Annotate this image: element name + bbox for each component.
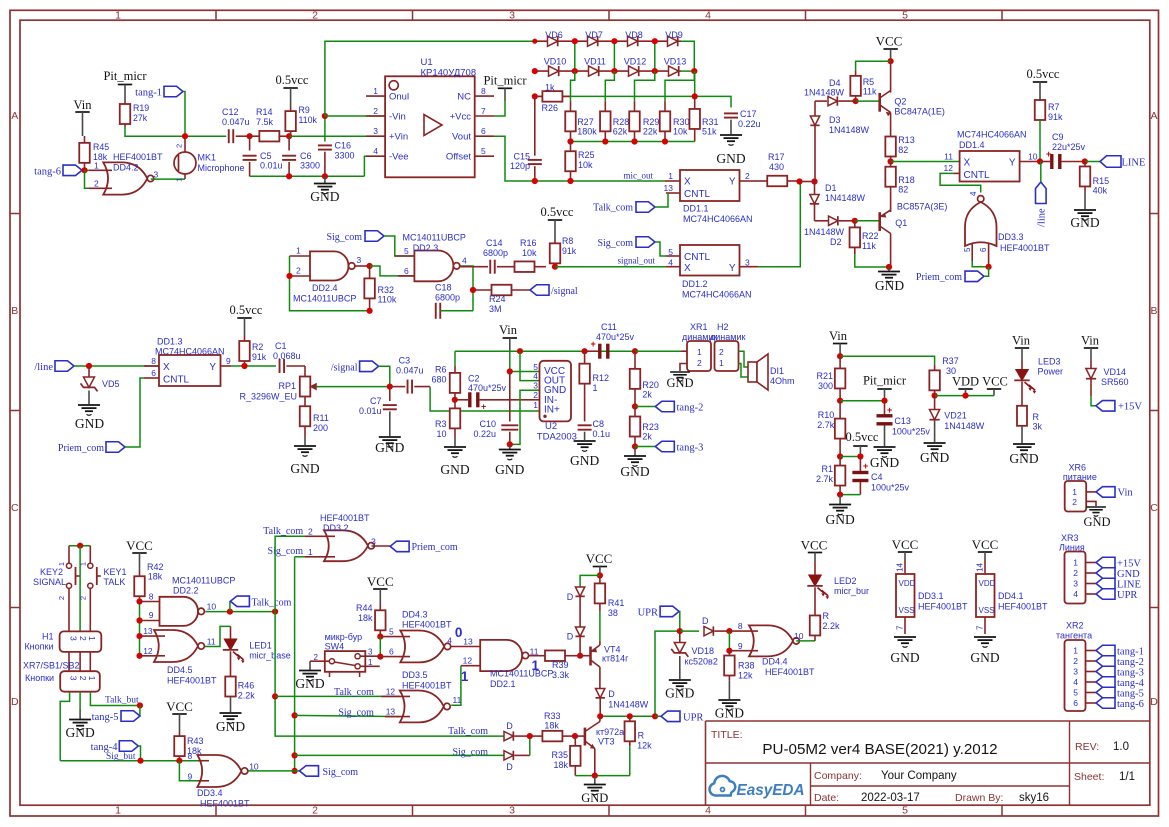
ground R46 xyxy=(216,713,245,734)
svg-text:3: 3 xyxy=(533,381,538,391)
svg-text:1: 1 xyxy=(57,562,66,566)
wire DD4.2 out to MK1 xyxy=(151,178,185,180)
svg-text:2.2k: 2.2k xyxy=(823,621,841,631)
wire tang-6 to gate xyxy=(82,169,89,171)
resistor R30 xyxy=(660,101,671,141)
label R44 xyxy=(356,603,373,623)
node Sig bus DD3.5 xyxy=(292,712,298,718)
svg-text:Sig_com: Sig_com xyxy=(326,232,362,243)
wire DD2.4 input loop xyxy=(290,256,370,311)
svg-text:12k: 12k xyxy=(637,741,652,751)
diode D (to DD4.4) xyxy=(680,626,730,635)
diode VD12 xyxy=(629,66,639,76)
svg-text:Линия: Линия xyxy=(1059,543,1085,553)
svg-text:2.7k: 2.7k xyxy=(817,420,835,430)
wire jog R29 xyxy=(635,71,655,101)
svg-text:Sig_com: Sig_com xyxy=(338,707,374,718)
svg-text:R6: R6 xyxy=(435,365,447,375)
net flag +15V (XR3) xyxy=(1096,557,1141,569)
svg-text:VD18: VD18 xyxy=(692,646,715,656)
svg-text:VDD: VDD xyxy=(979,579,996,588)
wire Sig_com to DD1.2 CNTL xyxy=(655,242,666,256)
node R31 top xyxy=(692,93,698,99)
svg-text:R41: R41 xyxy=(608,598,625,608)
net flag /line (vertical) xyxy=(1036,182,1048,227)
svg-text:4: 4 xyxy=(969,191,978,196)
svg-text:VD7: VD7 xyxy=(585,30,603,40)
svg-text:Sig_but: Sig_but xyxy=(106,752,136,762)
svg-text:7: 7 xyxy=(481,106,486,116)
svg-text:R15: R15 xyxy=(1093,176,1110,186)
svg-text:VD5: VD5 xyxy=(102,379,120,389)
svg-text:2.7k: 2.7k xyxy=(816,474,834,484)
node R1 bottom xyxy=(837,492,843,498)
svg-text:GND: GND xyxy=(970,650,999,665)
svg-text:SW4: SW4 xyxy=(325,642,345,652)
svg-text:11k: 11k xyxy=(863,87,877,97)
svg-text:DD1.1: DD1.1 xyxy=(683,204,709,214)
pin numbers DD1.1 xyxy=(664,171,750,193)
svg-text:R45: R45 xyxy=(93,142,109,152)
svg-text:3: 3 xyxy=(1073,579,1078,589)
label R37 xyxy=(942,356,959,376)
node pin1 DD4.2 xyxy=(81,167,87,173)
svg-text:18k: 18k xyxy=(544,721,559,731)
wire VD6 row xyxy=(535,41,695,71)
svg-text:110k: 110k xyxy=(299,115,318,125)
svg-text:2: 2 xyxy=(175,144,184,148)
net flag tang-1 xyxy=(135,86,183,98)
svg-text:R1: R1 xyxy=(821,464,833,474)
svg-text:R14: R14 xyxy=(256,107,273,117)
svg-text:R9: R9 xyxy=(299,105,310,115)
svg-text:+Vcc: +Vcc xyxy=(450,112,472,123)
node bus 13 xyxy=(136,633,142,639)
node UPR corner xyxy=(652,713,658,719)
node Talk_com bus top xyxy=(272,609,278,615)
svg-text:MC74HC4066AN: MC74HC4066AN xyxy=(155,346,225,356)
label H2 xyxy=(710,322,745,342)
label R29 xyxy=(643,117,660,137)
svg-text:D: D xyxy=(1150,696,1158,708)
node C12-C5 xyxy=(247,133,253,139)
svg-text:кт814г: кт814г xyxy=(602,654,629,664)
ground R1 xyxy=(825,495,854,527)
svg-text:Sig_com: Sig_com xyxy=(452,747,488,758)
svg-text:1: 1 xyxy=(373,86,378,96)
svg-text:R30: R30 xyxy=(673,117,690,127)
connector XR7/SB1/SB2 xyxy=(60,671,100,692)
gate DD4.4 (NOR) xyxy=(729,625,815,656)
svg-text:DD1.3: DD1.3 xyxy=(157,337,183,347)
node DD2.4 pin2 xyxy=(286,273,292,279)
wire R44 to pin6 xyxy=(379,637,381,657)
svg-text:4: 4 xyxy=(447,636,452,646)
svg-text:GND: GND xyxy=(716,151,745,166)
node tang-2 tap xyxy=(632,403,638,409)
svg-text:Company:: Company: xyxy=(814,770,862,782)
svg-text:VD6: VD6 xyxy=(545,30,563,40)
resistor R16 xyxy=(503,261,546,272)
svg-text:2: 2 xyxy=(1073,568,1078,578)
net flag Sig_com (DD3.4) xyxy=(295,766,359,778)
resistor R20 xyxy=(630,351,641,406)
node DD3.3 in xyxy=(986,264,992,270)
power flag VCC (VT4) xyxy=(593,567,607,576)
node C13 top xyxy=(881,398,887,404)
svg-text:GND: GND xyxy=(1009,451,1038,466)
svg-text:91k: 91k xyxy=(252,352,267,362)
svg-text:C17: C17 xyxy=(740,109,757,119)
resistor R3 xyxy=(450,400,461,446)
svg-text:1: 1 xyxy=(94,160,99,170)
svg-text:DD1.2: DD1.2 xyxy=(682,279,708,289)
svg-text:Vin: Vin xyxy=(1012,334,1031,348)
svg-text:UPR: UPR xyxy=(1117,590,1137,601)
wire R26 row xyxy=(535,95,710,97)
svg-text:тангента: тангента xyxy=(1056,631,1092,641)
svg-text:4: 4 xyxy=(705,9,711,21)
svg-text:Priem_com: Priem_com xyxy=(412,542,458,553)
svg-text:38: 38 xyxy=(608,608,618,618)
svg-text:R31: R31 xyxy=(702,117,719,127)
svg-text:HEF4001BT: HEF4001BT xyxy=(320,513,370,523)
ground C13 xyxy=(870,447,899,470)
svg-text:HEF4001BT: HEF4001BT xyxy=(167,676,217,686)
wire VD10 row xyxy=(535,70,695,72)
svg-text:2: 2 xyxy=(308,526,313,536)
svg-text:9: 9 xyxy=(226,356,231,366)
svg-text:GND: GND xyxy=(75,416,104,431)
svg-text:0.01u: 0.01u xyxy=(359,406,382,416)
svg-text:2022-03-17: 2022-03-17 xyxy=(861,792,920,804)
analog switch DD1.3 xyxy=(144,355,231,386)
diode VD8 xyxy=(628,36,638,46)
svg-text:R12: R12 xyxy=(593,373,610,383)
wire Sig_com to DD3.5 pin13 xyxy=(295,715,400,716)
node C15 bottom xyxy=(532,178,538,184)
wire to DD1.4 X xyxy=(891,161,960,163)
push button KEY2 xyxy=(57,546,80,632)
svg-text:120p: 120p xyxy=(510,161,530,171)
svg-text:tang-4: tang-4 xyxy=(91,742,119,753)
power flag 0.5vcc (R7) xyxy=(1033,82,1047,100)
label DD3.1 xyxy=(918,591,968,612)
node C5 gnd xyxy=(286,173,292,179)
node /signal-C3-C7 xyxy=(387,384,393,390)
svg-text:R44: R44 xyxy=(356,603,373,613)
svg-text:DD2.2: DD2.2 xyxy=(173,586,199,596)
svg-text:CNTL: CNTL xyxy=(163,375,190,386)
wire DD1.4 CNTL to DD3.3 xyxy=(940,173,981,192)
svg-text:R19: R19 xyxy=(133,103,149,113)
label R35 xyxy=(551,750,568,770)
svg-text:LED1: LED1 xyxy=(249,641,272,651)
svg-text:HEF4001BT: HEF4001BT xyxy=(200,799,250,809)
wire DD4.3 out to DD2.1 xyxy=(451,646,480,648)
resistor R2 xyxy=(239,336,250,366)
svg-text:VSS: VSS xyxy=(899,606,915,615)
svg-text:200: 200 xyxy=(313,423,328,433)
svg-text:C13: C13 xyxy=(894,416,911,426)
svg-text:DD4.5: DD4.5 xyxy=(167,665,193,675)
svg-text:DD3.4: DD3.4 xyxy=(197,788,223,798)
ground R11 xyxy=(290,446,319,476)
svg-text:VCC: VCC xyxy=(982,375,1008,389)
svg-text:HEF4001BT: HEF4001BT xyxy=(998,602,1048,612)
diode D (Sig VT3) xyxy=(504,751,530,760)
diode VD21 xyxy=(930,396,940,442)
ground R15 xyxy=(1070,210,1099,230)
label R18 xyxy=(898,175,915,195)
svg-text:Y: Y xyxy=(1009,158,1016,169)
resistor R26 xyxy=(535,91,570,102)
label VD21 xyxy=(944,411,985,432)
svg-text:+: + xyxy=(591,339,596,349)
node R8 bottom xyxy=(552,264,558,270)
label C3 xyxy=(396,356,424,376)
pin numbers U2 xyxy=(533,362,538,410)
connector XR2 xyxy=(1065,640,1097,711)
resistor R5 xyxy=(850,71,861,102)
ground R23 xyxy=(620,447,649,480)
wire Talk_com to CNTL xyxy=(655,193,668,207)
capacitor C5 xyxy=(243,136,257,176)
svg-text:1/1: 1/1 xyxy=(1119,771,1135,783)
label C6 xyxy=(300,151,320,171)
label C9 xyxy=(1052,132,1086,152)
svg-text:VCC: VCC xyxy=(126,538,153,553)
svg-text:Date:: Date: xyxy=(814,792,839,804)
ground DD4.1 xyxy=(970,637,999,665)
svg-text:680: 680 xyxy=(431,375,446,385)
transistor VT3 (NPN) xyxy=(575,716,600,775)
microphone MK1 xyxy=(174,136,196,182)
diode VD10 xyxy=(549,66,559,76)
svg-text:+: + xyxy=(1046,149,1051,159)
svg-text:TDA2003: TDA2003 xyxy=(537,432,577,443)
svg-text:MK1: MK1 xyxy=(198,153,217,163)
node MK1 top xyxy=(182,133,188,139)
svg-text:1: 1 xyxy=(461,669,469,684)
node C4 top xyxy=(857,453,863,459)
pin numbers DD1.4 xyxy=(944,152,1038,174)
wire C3 to IN+ xyxy=(430,387,539,411)
node bus 9 xyxy=(136,617,142,623)
label R30 xyxy=(673,117,690,137)
resistor R27 xyxy=(565,101,576,141)
svg-text:GND: GND xyxy=(295,676,324,691)
svg-text:40k: 40k xyxy=(1093,186,1108,196)
svg-text:Talk_com: Talk_com xyxy=(448,726,488,737)
label C1 xyxy=(273,341,301,361)
frame row letters xyxy=(11,110,1158,708)
label C17 xyxy=(738,109,761,129)
label R25 xyxy=(578,150,595,170)
svg-text:5: 5 xyxy=(481,146,486,156)
wire DD4.4 pins tie xyxy=(728,631,730,651)
net flag UPR (XR3) xyxy=(1096,589,1137,601)
node Talk_com flag tap xyxy=(227,609,233,615)
node R6-C2 xyxy=(452,397,458,403)
power flag VCC (R44) xyxy=(373,589,387,604)
svg-text:2k: 2k xyxy=(642,432,652,442)
wire Sig_com bus xyxy=(294,557,296,771)
label XR1 xyxy=(682,322,717,342)
svg-text:CNTL: CNTL xyxy=(684,252,711,263)
ground XR6 xyxy=(1083,507,1110,529)
pin numbers DD4.5 xyxy=(143,626,216,656)
svg-text:3: 3 xyxy=(69,676,79,681)
capacitor C13 (electrolytic) xyxy=(877,401,893,446)
svg-text:0.22u: 0.22u xyxy=(473,429,496,439)
label R14 xyxy=(256,107,274,127)
svg-text:Vin: Vin xyxy=(1118,488,1134,499)
pin numbers DD4.4 xyxy=(738,621,804,651)
svg-text:3: 3 xyxy=(371,536,376,546)
pin numbers DD2.1 xyxy=(463,647,539,666)
label DD4.5 xyxy=(167,665,217,686)
svg-text:3.3k: 3.3k xyxy=(552,670,570,680)
svg-text:+: + xyxy=(887,405,892,415)
label D1 xyxy=(825,183,866,203)
net flag tang-5 (XR2) xyxy=(1096,687,1144,699)
svg-text:R7: R7 xyxy=(1048,102,1060,112)
node R32 bottom xyxy=(367,308,373,314)
U1 pin stubs xyxy=(366,96,494,156)
label R6 xyxy=(431,365,446,385)
node R43 bottom xyxy=(176,758,182,764)
wire VDD VCC rail xyxy=(935,395,994,397)
transistor Q2 (NPN) xyxy=(880,61,891,131)
svg-text:GND: GND xyxy=(65,725,94,740)
svg-text:7.5k: 7.5k xyxy=(256,117,274,127)
node R26 left xyxy=(532,93,538,99)
node VCC VT4 xyxy=(597,572,603,578)
capacitor C1 xyxy=(280,359,305,373)
pin numbers DD4.3 xyxy=(389,627,452,657)
svg-text:Y: Y xyxy=(729,177,736,188)
svg-text:5: 5 xyxy=(668,247,673,257)
label VT3 xyxy=(596,727,624,747)
svg-text:10: 10 xyxy=(207,602,217,612)
svg-text:5: 5 xyxy=(902,805,908,817)
node tang-3 tap xyxy=(632,443,638,449)
svg-text:XR2: XR2 xyxy=(1066,621,1084,631)
svg-text:6: 6 xyxy=(481,126,486,136)
capacitor C10 (series) xyxy=(501,372,518,445)
node R12k top xyxy=(627,713,633,719)
diode VD6 xyxy=(548,36,558,46)
pin numbers DD1.3 xyxy=(151,356,231,378)
net flag tang-5 xyxy=(92,706,140,724)
node VDD stem xyxy=(962,393,968,399)
label LED3 xyxy=(1038,357,1064,377)
label KEY2 xyxy=(33,567,66,587)
svg-text:tang-5: tang-5 xyxy=(1117,688,1144,699)
label D3 xyxy=(829,115,870,135)
label C18 xyxy=(435,283,460,303)
svg-text:11k: 11k xyxy=(862,241,876,251)
svg-text:D4: D4 xyxy=(829,78,841,88)
diode VD13 xyxy=(669,66,679,76)
svg-text:GND: GND xyxy=(1070,215,1099,230)
U1 pin names xyxy=(389,92,471,163)
svg-text:LED2: LED2 xyxy=(834,576,857,586)
svg-text:MC74HC4066AN: MC74HC4066AN xyxy=(683,214,753,224)
net flag Talk_com (DD1.1) xyxy=(593,202,655,214)
node R44 bottom xyxy=(377,634,383,640)
net flag /line (DD1.3) xyxy=(34,361,74,373)
svg-text:2: 2 xyxy=(1073,656,1078,666)
svg-text:1: 1 xyxy=(668,171,673,181)
svg-text:VDD: VDD xyxy=(899,579,916,588)
svg-text:HEF4001BT: HEF4001BT xyxy=(765,667,815,677)
net flag +15V (VD14) xyxy=(1091,396,1142,413)
svg-text:5: 5 xyxy=(963,247,972,252)
svg-text:R37: R37 xyxy=(942,356,959,366)
label R11 xyxy=(313,413,329,433)
resistor R 12k xyxy=(625,716,636,775)
capacitor C8 (series) xyxy=(578,396,592,440)
wire amp Vin rail xyxy=(455,350,612,352)
ground C7 xyxy=(375,437,404,455)
svg-text:Offset: Offset xyxy=(446,152,472,163)
svg-text:VCC: VCC xyxy=(586,551,613,566)
svg-text:/line: /line xyxy=(34,362,53,373)
svg-text:GND: GND xyxy=(1117,569,1140,580)
svg-text:micr_base: micr_base xyxy=(249,651,291,661)
svg-text:1: 1 xyxy=(296,246,301,256)
svg-text:D: D xyxy=(567,592,574,602)
resistor R15 xyxy=(1080,162,1091,210)
resistor R8 xyxy=(550,240,561,267)
wire UPR row xyxy=(600,631,680,716)
node DD1.4 out xyxy=(1037,158,1043,164)
ground SW4 xyxy=(295,661,324,691)
push button KEY1 xyxy=(79,546,101,632)
pin numbers DD3.4 xyxy=(188,751,259,782)
svg-text:DD4.1: DD4.1 xyxy=(998,591,1024,601)
node C10 bottom xyxy=(507,441,513,447)
wire DD3.4 out xyxy=(248,770,294,772)
wire keys common xyxy=(69,545,90,547)
label C15 xyxy=(510,152,530,172)
svg-text:6: 6 xyxy=(151,368,156,378)
svg-text:C: C xyxy=(1150,502,1158,514)
resistor R43 xyxy=(174,732,185,761)
svg-text:DD4.2: DD4.2 xyxy=(113,163,139,173)
U1 pin numbers xyxy=(373,86,486,156)
pin numbers DD2.2 xyxy=(149,592,217,621)
svg-text:GND: GND xyxy=(375,440,404,455)
svg-text:C7: C7 xyxy=(370,396,382,406)
power flag Pit_micr (R19) xyxy=(118,85,132,102)
svg-text:tang-6: tang-6 xyxy=(34,166,61,177)
resistor R37 xyxy=(929,365,940,396)
node R13-R18 xyxy=(888,158,894,164)
svg-text:R21: R21 xyxy=(816,371,833,381)
svg-text:5: 5 xyxy=(1073,688,1078,698)
net flag tang-2 (XR2) xyxy=(1096,656,1144,668)
svg-text:mic_out: mic_out xyxy=(624,171,654,181)
resistor R38 xyxy=(724,651,735,699)
svg-text:0.5vcc: 0.5vcc xyxy=(230,303,263,317)
wire to Pit_micr node xyxy=(840,400,884,402)
svg-text:R_3296W_EU: R_3296W_EU xyxy=(239,392,297,402)
label C8 xyxy=(593,419,611,439)
svg-text:GND: GND xyxy=(870,455,899,470)
